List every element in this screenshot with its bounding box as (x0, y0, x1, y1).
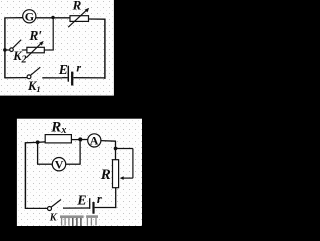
wire: voltmeter to riser (66, 163, 81, 165)
wire: tap to K2 (5, 49, 10, 51)
wire: K2 to R' (22, 49, 28, 51)
wire: junction to rheostat body (115, 148, 117, 160)
wire: Rx to ammeter (71, 139, 88, 141)
wire: to voltmeter (37, 163, 52, 165)
wire: R' to riser (44, 49, 54, 51)
node: voltmeter branch left junction (36, 140, 40, 144)
svg-text:E: E (76, 193, 86, 208)
node: shunt riser top junction (51, 16, 54, 19)
switch K2 (10, 40, 22, 52)
battery E r (circuit2) (63, 198, 94, 214)
switch K1 (27, 67, 40, 79)
wire: circuit2 top-left to Rx (25, 142, 46, 143)
node: rheostat top junction (114, 147, 118, 151)
battery E r (circuit1) (62, 66, 72, 86)
wire: shunt riser to top wire (52, 17, 54, 50)
svg-text:E: E (58, 62, 68, 77)
svg-text:r: r (76, 61, 81, 75)
galvanometer G (23, 10, 36, 24)
svg-text:K: K (49, 213, 58, 224)
resistor R' (variable) (26, 41, 44, 58)
crop marks below battery (60, 215, 98, 226)
wire: wiper feed right side (132, 149, 134, 179)
wire: bottom-left corner to K1 (4, 77, 27, 79)
wire: G to R (36, 17, 71, 19)
voltmeter V (52, 158, 65, 172)
wire: bottom-left to K (25, 207, 48, 209)
wire: circuit1 left side (4, 18, 6, 78)
wire: ammeter to top-right corner (101, 140, 116, 143)
wire: battery to bottom-right corner (73, 77, 105, 79)
resistor Rx (45, 135, 71, 143)
wire: K1 to battery (42, 77, 62, 79)
wire: circuit1 right side (104, 19, 106, 79)
wire: top-right corner down to wiper junction (115, 141, 117, 148)
ammeter A (88, 134, 101, 148)
wire: rheostat to bottom-right corner (115, 188, 117, 208)
wire: circuit2 left side (24, 142, 26, 208)
switch K (48, 200, 62, 211)
wire: battery to bottom-right corner (95, 207, 117, 209)
node: shunt tap junction (3, 48, 7, 52)
node: voltmeter branch right junction (78, 137, 82, 141)
wire: riser to top junction (79, 140, 81, 165)
wire: R to top-right corner (88, 18, 105, 20)
svg-text:G: G (25, 10, 34, 24)
svg-text:R: R (100, 167, 111, 183)
wire: wiper feed top (116, 148, 133, 150)
svg-text:V: V (55, 158, 64, 172)
svg-text:r: r (97, 192, 102, 206)
resistor R (variable) (68, 8, 89, 27)
svg-text:R: R (72, 0, 82, 13)
svg-text:R′: R′ (28, 28, 42, 43)
rheostat R body (113, 160, 119, 188)
wire: voltmeter branch down (37, 142, 39, 164)
svg-text:A: A (90, 134, 99, 148)
wire: circuit1 top-left segment (4, 17, 23, 19)
wiper arrow into R (120, 176, 133, 180)
